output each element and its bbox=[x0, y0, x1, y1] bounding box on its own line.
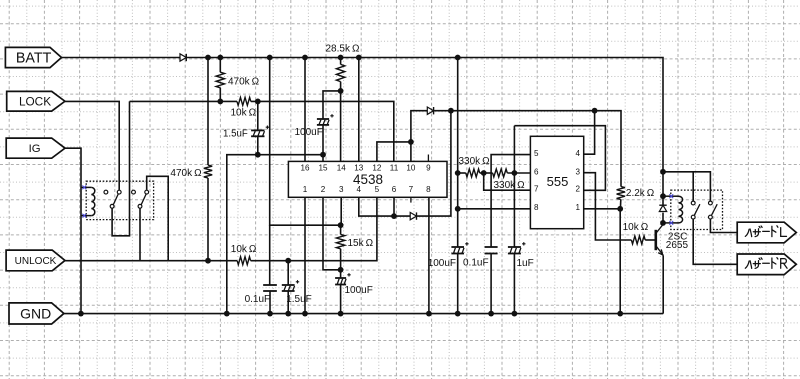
wire relay arm1 pivot loop bbox=[112, 101, 129, 235]
wire relay arm2 pivot to UNLOCK node bbox=[139, 209, 141, 261]
svg-text:16: 16 bbox=[300, 164, 310, 173]
capacitor C6 100uF bbox=[451, 242, 468, 253]
svg-text:0.1uF: 0.1uF bbox=[245, 294, 271, 305]
wire 4538 pin4 to pin6 junction bbox=[359, 197, 410, 216]
wire C2 to 4538 pin15 bbox=[322, 125, 324, 161]
label C6 100uF bbox=[428, 258, 456, 269]
relay RY1 contact A (open) bbox=[104, 190, 108, 194]
diode D1 on BATT rail bbox=[180, 54, 186, 61]
diode D4 flyback bbox=[659, 196, 666, 223]
svg-text:14: 14 bbox=[337, 164, 347, 173]
wire 4538 pin2 to 15k bottom bbox=[323, 197, 341, 269]
relay RY1 contact B bbox=[117, 190, 121, 194]
svg-text:2.2k Ω: 2.2k Ω bbox=[626, 188, 655, 199]
wire 555 pin5 control bbox=[491, 155, 530, 247]
svg-text:555: 555 bbox=[547, 174, 569, 189]
label R5 28.5k bbox=[326, 44, 360, 55]
capacitor C5 1.5uF bbox=[282, 261, 299, 314]
svg-text:0.1uF: 0.1uF bbox=[463, 257, 489, 268]
wire 555 pin4 reset bbox=[584, 111, 595, 155]
resistor R2 10k horizontal bbox=[237, 97, 251, 105]
resistor R1 470k vertical bbox=[216, 72, 224, 88]
wire R8 to 555 pin6 bbox=[507, 172, 530, 174]
svg-text:8: 8 bbox=[426, 185, 431, 194]
transistor Q1 2SC2655 bbox=[656, 224, 663, 255]
svg-text:100uF: 100uF bbox=[295, 127, 323, 138]
label R3 470k bbox=[170, 168, 202, 179]
wire 4538 pin8 to GND bbox=[428, 197, 430, 313]
svg-text:1.5uF: 1.5uF bbox=[223, 129, 248, 140]
wire 4538 pin3 down bbox=[340, 197, 342, 225]
op-amp U1 4538 IC body bbox=[288, 161, 447, 197]
wire 4538 pin6 down bbox=[393, 197, 395, 216]
wire BATT to R3 470k bbox=[207, 58, 209, 166]
wire to switch1 top bbox=[692, 172, 694, 201]
wire 555 pin3 output bbox=[584, 173, 632, 240]
wire C1 to n154 wire bbox=[257, 136, 259, 154]
capacitor C1 1.5uF bbox=[251, 126, 269, 137]
svg-text:LOCK: LOCK bbox=[19, 94, 51, 108]
wire BATT to 4538 pin13 bbox=[358, 58, 360, 162]
svg-text:3: 3 bbox=[576, 167, 581, 176]
svg-text:BATT: BATT bbox=[16, 51, 52, 67]
resistor R5 28.5k vertical bbox=[336, 58, 344, 91]
label R4 10k bbox=[231, 244, 257, 255]
wire R5 junction to C2 100uF bbox=[323, 91, 341, 119]
svg-text:5: 5 bbox=[375, 185, 380, 194]
wire 4538 pin10 up bbox=[411, 111, 427, 162]
wire GND rail bbox=[64, 313, 663, 315]
label C1 1.5uF bbox=[223, 129, 248, 140]
svg-text:7: 7 bbox=[534, 185, 539, 194]
svg-text:GND: GND bbox=[20, 305, 51, 321]
svg-text:2655: 2655 bbox=[666, 240, 689, 251]
wire emitter to GND bbox=[662, 255, 664, 313]
resistor R8 330k bbox=[493, 169, 508, 177]
svg-text:9: 9 bbox=[426, 164, 431, 173]
svg-text:100uF: 100uF bbox=[345, 285, 373, 296]
svg-text:470k Ω: 470k Ω bbox=[228, 77, 260, 88]
svg-text:11: 11 bbox=[390, 164, 399, 173]
wire node run to 4538 pin11 bbox=[251, 101, 394, 161]
label R1 470k bbox=[228, 77, 260, 88]
input tag IG bbox=[6, 138, 65, 158]
wire 2.2k junction to GND bbox=[619, 209, 621, 314]
svg-text:10k Ω: 10k Ω bbox=[231, 244, 257, 255]
svg-text:4: 4 bbox=[357, 185, 362, 194]
wire C8 to GND bbox=[513, 254, 515, 314]
svg-text:10k Ω: 10k Ω bbox=[231, 108, 257, 119]
relay RY2 contact 1 bbox=[691, 201, 695, 205]
4538 pin7 stub bbox=[410, 197, 412, 202]
input tag GND bbox=[9, 303, 64, 324]
wire n154 horizontal bbox=[227, 155, 323, 314]
resistor R7 330k bbox=[466, 169, 480, 177]
wire 555 pin8 VCC bbox=[458, 208, 531, 210]
svg-text:330k Ω: 330k Ω bbox=[459, 156, 491, 167]
resistor R10 10k base bbox=[631, 236, 645, 244]
svg-text:2: 2 bbox=[321, 185, 326, 194]
relay RY2 arm 1 bbox=[691, 204, 700, 219]
wire R7 to R8 bbox=[480, 172, 493, 174]
svg-text:1.5uF: 1.5uF bbox=[286, 294, 312, 305]
svg-text:4: 4 bbox=[576, 149, 581, 158]
relay RY2 coil bbox=[663, 196, 683, 223]
output tag hazard R bbox=[737, 254, 796, 275]
label R6 15k bbox=[348, 238, 374, 249]
capacitor C8 1uF bbox=[508, 242, 526, 253]
relay RY2 arm 2 bbox=[709, 204, 718, 219]
wire C7 to GND bbox=[490, 254, 492, 314]
svg-text:28.5k Ω: 28.5k Ω bbox=[326, 44, 360, 55]
svg-text:6: 6 bbox=[392, 185, 397, 194]
svg-text:1: 1 bbox=[303, 185, 308, 194]
svg-text:5: 5 bbox=[534, 149, 539, 158]
wire LOCK to relay contact B bbox=[65, 101, 119, 189]
capacitor C4 100uF bbox=[335, 270, 351, 314]
svg-text:15k Ω: 15k Ω bbox=[348, 238, 374, 249]
svg-text:2: 2 bbox=[576, 185, 581, 194]
junction x-mark coil2 bottom bbox=[669, 221, 673, 225]
wire 4538 pin3 branch bbox=[270, 58, 341, 226]
wire node to C1 bbox=[257, 101, 259, 130]
relay RY1 coil bbox=[81, 187, 95, 215]
wire arm1 to hazard R tag bbox=[693, 219, 737, 264]
relay RY1 dashed box bbox=[86, 181, 153, 219]
svg-text:10: 10 bbox=[406, 164, 416, 173]
svg-text:UNLOCK: UNLOCK bbox=[15, 256, 57, 267]
wire branch down to C3 bbox=[269, 225, 271, 285]
wire collector up bbox=[662, 223, 664, 225]
svg-text:6: 6 bbox=[534, 167, 539, 176]
svg-text:13: 13 bbox=[354, 164, 364, 173]
wire C6 to GND bbox=[457, 254, 459, 314]
resistor R9 2.2k vertical bbox=[617, 187, 625, 209]
label C2 100uF bbox=[295, 127, 323, 138]
resistor R4 10k horizontal bbox=[237, 257, 250, 265]
svg-text:IG: IG bbox=[29, 143, 41, 155]
label C3 0.1uF bbox=[245, 294, 271, 305]
svg-text:10k Ω: 10k Ω bbox=[623, 222, 649, 233]
capacitor C7 0.1uF bbox=[485, 247, 498, 254]
relay RY2 dashed box bbox=[671, 190, 723, 229]
resistor R3 470k vertical bbox=[204, 165, 212, 178]
wire 4538 pin12 to pin10 bbox=[377, 142, 411, 162]
wire R7/R8 junction to 555 pin7 bbox=[484, 173, 531, 190]
capacitor C3 0.1uF bbox=[263, 285, 277, 291]
junction x-mark coil1 top bbox=[82, 186, 86, 190]
wire BATT to R1 470k bbox=[219, 58, 221, 73]
label R8 330k bbox=[494, 180, 526, 191]
label R9 2.2k bbox=[626, 188, 655, 199]
capacitor C2 100uF bbox=[317, 114, 334, 125]
svg-text:7: 7 bbox=[409, 185, 414, 194]
label R2 10k bbox=[231, 108, 257, 119]
wire relay contact D to UNLOCK node bbox=[147, 176, 169, 260]
wire BATT rail to right side bbox=[187, 58, 663, 197]
wire IG to relay coil RY1 bbox=[65, 148, 81, 313]
svg-text:1uF: 1uF bbox=[517, 258, 534, 269]
wire UNLOCK run to 4538 pin5 bbox=[251, 197, 377, 260]
relay RY1 contact D bbox=[145, 190, 149, 194]
wire UNLOCK run bbox=[65, 260, 237, 262]
wire switch feed from BATT vertical bbox=[663, 172, 710, 201]
wire BATT branch to 555 VCC bbox=[457, 58, 459, 248]
wire 28.5k junction down to 4538 pin14 bbox=[340, 91, 342, 161]
wire R1 to lock-node bbox=[219, 88, 221, 102]
label C7 0.1uF bbox=[463, 257, 489, 268]
input tag LOCK bbox=[7, 91, 65, 111]
resistor R6 15k vertical bbox=[336, 225, 344, 270]
label R10 10k bbox=[623, 222, 649, 233]
wire 555 pin2 loop over top bbox=[514, 126, 605, 191]
output tag hazard L bbox=[737, 222, 796, 243]
op-amp U2 555 IC body bbox=[530, 136, 583, 228]
wire BATT to 4538 pin16 bbox=[304, 58, 306, 162]
label Q1 2655 bbox=[666, 240, 689, 251]
wire 4538 pin1 to GND bbox=[304, 197, 306, 313]
relay RY2 contact 2 bbox=[709, 201, 713, 205]
wire R3 to UNLOCK node bbox=[207, 178, 209, 261]
svg-text:15: 15 bbox=[318, 164, 328, 173]
4538 pin9 stub bbox=[427, 155, 429, 162]
wire timing node vertical bbox=[513, 126, 515, 247]
input tag BATT bbox=[5, 47, 61, 67]
label C8 1uF bbox=[517, 258, 534, 269]
wire trigger rail (diode row to 555/2.2k) bbox=[434, 111, 621, 187]
diode D2 bbox=[427, 107, 433, 114]
junction x-mark coil1 bottom bbox=[82, 214, 86, 218]
wire arm2 to hazard L tag bbox=[710, 219, 737, 232]
input tag UNLOCK bbox=[6, 250, 65, 271]
wire lock-node horizontal run bbox=[130, 100, 238, 102]
svg-text:470k Ω: 470k Ω bbox=[170, 168, 202, 179]
wire C3 to GND bbox=[269, 291, 271, 314]
label R7 330k bbox=[459, 156, 491, 167]
relay RY1 switch arm 1 bbox=[110, 194, 118, 208]
label C5 1.5uF bbox=[286, 294, 312, 305]
wire 555 pin1 bbox=[584, 208, 621, 210]
svg-text:100uF: 100uF bbox=[428, 258, 456, 269]
svg-text:1: 1 bbox=[576, 203, 581, 212]
relay RY1 contact C (open) bbox=[132, 190, 136, 194]
diode D3 bbox=[410, 212, 416, 219]
label Q1 2SC bbox=[668, 232, 687, 243]
wire D3 to riser bbox=[417, 111, 451, 216]
relay RY1 switch arm 2 bbox=[138, 194, 146, 208]
svg-text:12: 12 bbox=[372, 164, 382, 173]
svg-text:3: 3 bbox=[339, 185, 344, 194]
label C4 100uF bbox=[345, 285, 373, 296]
wire to 330k chain bbox=[458, 172, 466, 174]
svg-text:8: 8 bbox=[534, 203, 539, 212]
wire BATT rail left segment bbox=[62, 57, 181, 59]
junction x-mark coil2 top bbox=[669, 194, 673, 198]
wire R10 to base bbox=[645, 239, 655, 241]
